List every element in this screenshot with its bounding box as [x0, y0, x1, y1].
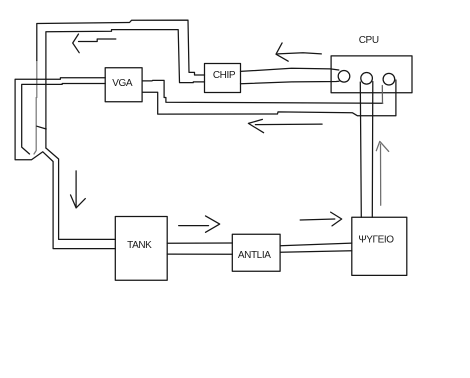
svg-text:ΨΥΓΕΙΟ: ΨΥΓΕΙΟ — [358, 234, 394, 245]
svg-text:CHIP: CHIP — [213, 70, 236, 81]
svg-text:CPU: CPU — [359, 35, 379, 46]
svg-text:TANK: TANK — [127, 240, 152, 251]
svg-text:VGA: VGA — [112, 78, 133, 89]
svg-text:ANTLIA: ANTLIA — [238, 250, 271, 261]
